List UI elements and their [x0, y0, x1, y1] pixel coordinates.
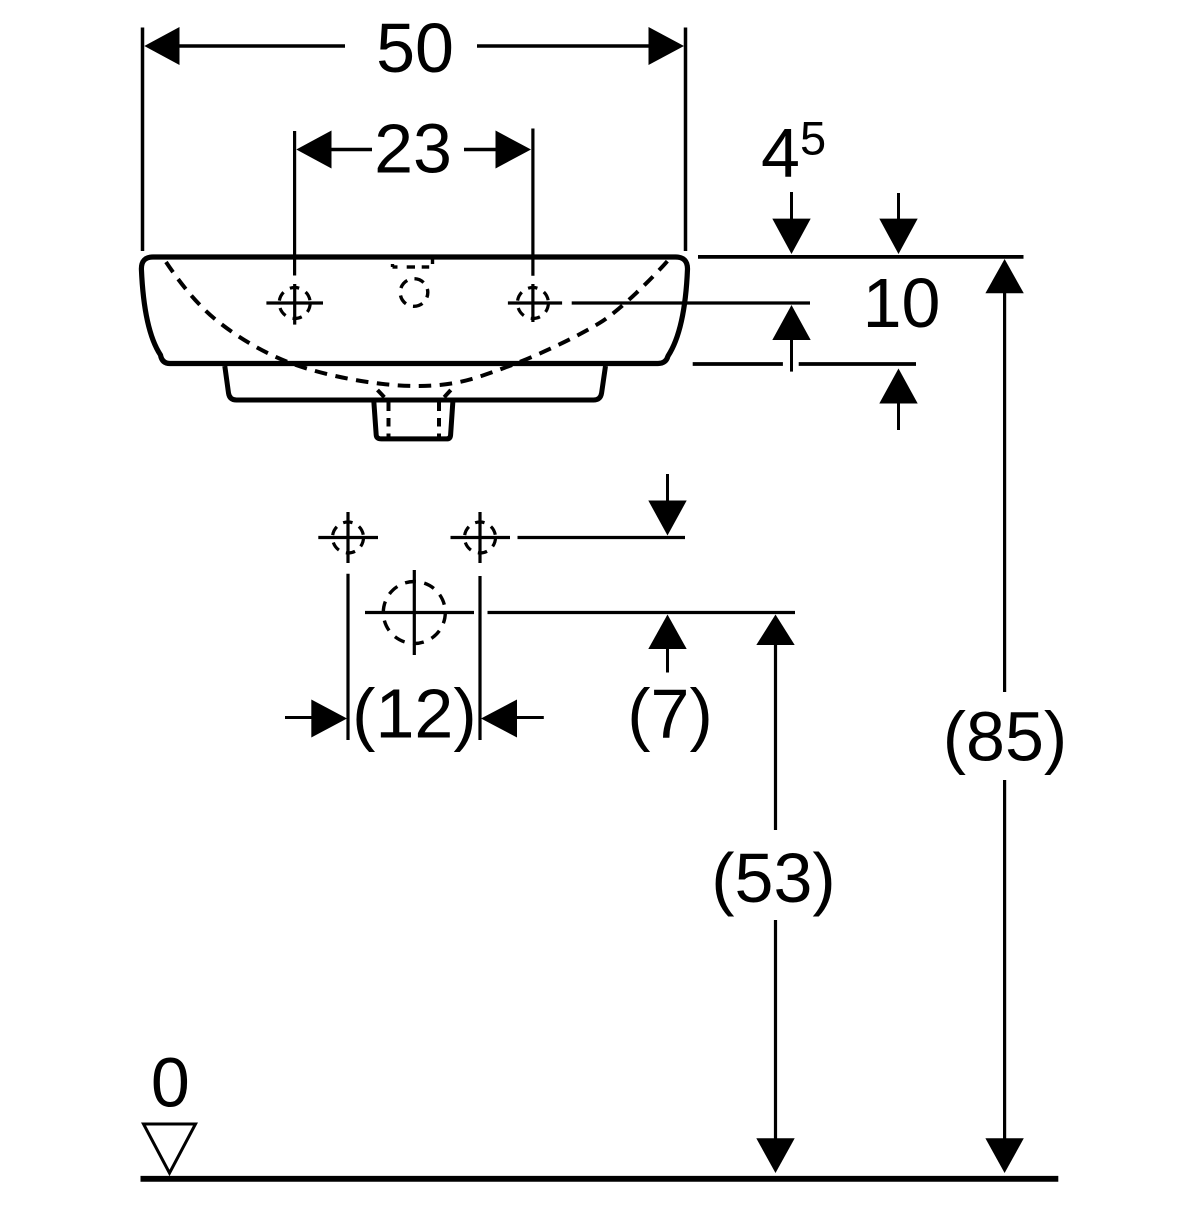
washbasin outline front view	[141, 257, 687, 364]
dimension 53 line with arrows	[756, 615, 794, 1174]
dimension 50 right arrow	[477, 27, 684, 65]
dimension 23 right arrow	[464, 131, 531, 169]
svg-text:10: 10	[863, 264, 941, 342]
dimension 50 left arrow	[144, 27, 345, 65]
dimension 10 up arrow	[879, 369, 917, 431]
drain inner dashed line left	[387, 403, 391, 438]
tap hole left cross	[266, 284, 323, 325]
tap hole right cross	[508, 284, 562, 322]
dimension 4.5 down arrow	[772, 192, 810, 254]
dimension 12 extension line left	[346, 574, 349, 740]
dimension 85 line with arrows	[985, 259, 1023, 1173]
tap hole left dashed circle	[279, 288, 310, 319]
tap hole reference line right	[572, 301, 810, 304]
dimension 4.5 up arrow	[772, 305, 810, 372]
wall hole right cross	[451, 512, 511, 563]
svg-text:(12): (12)	[352, 675, 476, 753]
floor line	[141, 1176, 1059, 1182]
svg-text:(53): (53)	[711, 839, 835, 917]
svg-text:4: 4	[761, 114, 800, 192]
washbasin bowl rim dashed arc	[166, 261, 668, 386]
rim reference line right	[698, 255, 1024, 259]
drain outlet box	[374, 401, 453, 439]
svg-text:(7): (7)	[627, 675, 713, 753]
drain inner dashed line right	[437, 403, 441, 438]
dimension 23 left arrow	[296, 131, 372, 169]
wall holes reference line	[518, 536, 686, 539]
drain funnel dash right	[444, 390, 451, 397]
drain funnel dash left	[378, 390, 385, 397]
dimension 50 extension line right	[684, 28, 688, 252]
dimension 12 right arrow	[481, 700, 544, 738]
tap hole right dashed circle	[517, 288, 548, 319]
washbasin lower step	[225, 366, 606, 400]
svg-text:50: 50	[376, 9, 454, 87]
svg-text:(85): (85)	[943, 698, 1067, 776]
overflow dashed circle	[400, 279, 428, 307]
svg-text:5: 5	[800, 112, 826, 165]
dimension 10 down arrow	[879, 193, 917, 254]
dimension 23 extension line left	[293, 131, 296, 276]
siphon reference line	[488, 611, 796, 614]
body bottom reference line segments	[693, 362, 916, 366]
dimension 7 up arrow	[648, 615, 686, 673]
dimension 23 extension line right	[531, 129, 534, 276]
wall hole left cross	[318, 512, 378, 563]
dimension 50 extension line left	[141, 28, 145, 252]
faucet slot dashed rectangle	[393, 258, 433, 268]
dimension 12 left arrow	[285, 700, 347, 738]
svg-text:23: 23	[374, 110, 452, 188]
wall hole right dashed circle	[465, 522, 496, 553]
siphon hole dashed circle	[383, 582, 445, 644]
wall hole left dashed circle	[333, 522, 364, 553]
siphon hole cross	[365, 570, 474, 655]
dimension 12 extension line right	[478, 576, 481, 740]
datum triangle	[144, 1124, 196, 1173]
svg-text:0: 0	[151, 1044, 190, 1122]
dimension 7 down arrow	[648, 474, 686, 536]
